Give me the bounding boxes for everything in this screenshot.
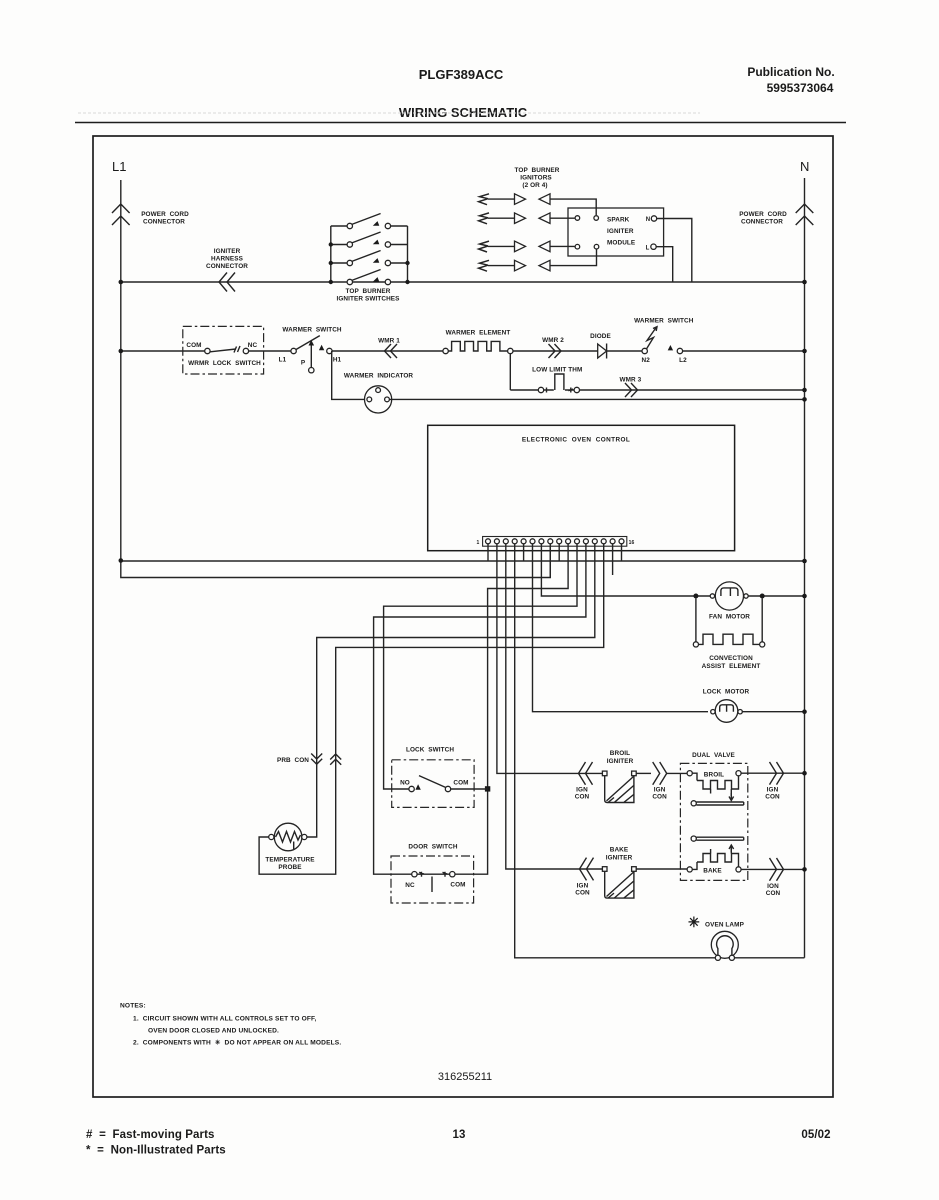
svg-text:TOP BURNER: TOP BURNER	[514, 167, 559, 174]
wire broil igniter to mid connector	[636, 772, 651, 774]
svg-text:WARMER ELEMENT: WARMER ELEMENT	[446, 330, 511, 337]
svg-text:IGNITER: IGNITER	[214, 248, 241, 255]
warmer switch terminal L1	[291, 348, 296, 353]
svg-text:COM: COM	[453, 780, 468, 787]
diode D1	[598, 344, 607, 358]
EOC connector strip	[483, 537, 627, 547]
wire pin16 drop	[621, 544, 623, 561]
connector IGN CON right (broil)	[770, 762, 784, 785]
diagram border frame	[93, 136, 833, 1097]
switch row 2	[331, 244, 347, 246]
svg-text:IGNITER SWITCHES: IGNITER SWITCHES	[336, 296, 400, 303]
svg-text:DIODE: DIODE	[590, 333, 611, 340]
module pins top-left	[575, 216, 580, 221]
svg-text:WARMER INDICATOR: WARMER INDICATOR	[344, 373, 414, 380]
svg-text:IGN: IGN	[654, 787, 666, 794]
wire pin13 to temperature probe right	[302, 544, 595, 837]
svg-text:L2: L2	[679, 357, 687, 364]
dual valve dashed box	[680, 763, 747, 880]
wire row2 main	[121, 350, 805, 352]
oven lamp	[711, 931, 738, 958]
svg-text:ASSIST ELEMENT: ASSIST ELEMENT	[702, 663, 761, 670]
svg-text:(2 OR 4): (2 OR 4)	[522, 182, 547, 189]
svg-text:16: 16	[629, 540, 635, 546]
broil igniter	[602, 771, 607, 776]
svg-text:PROBE: PROBE	[278, 864, 302, 871]
svg-text:OVEN LAMP: OVEN LAMP	[705, 922, 745, 929]
svg-text:WMR 2: WMR 2	[542, 337, 564, 344]
svg-text:DOOR SWITCH: DOOR SWITCH	[408, 844, 457, 851]
wire pin15 drop	[612, 544, 614, 575]
svg-text:1. CIRCUIT SHOWN WITH ALL CON: 1. CIRCUIT SHOWN WITH ALL CONTROLS SET T…	[133, 1016, 317, 1023]
connector WMR 1	[385, 344, 398, 358]
svg-text:CONNECTOR: CONNECTOR	[206, 263, 248, 270]
svg-text:L1: L1	[279, 357, 287, 364]
svg-text:CON: CON	[765, 794, 780, 801]
bake igniter	[602, 867, 607, 872]
lock switch contacts	[409, 786, 414, 791]
left bus	[330, 226, 332, 283]
top burner igniters group	[479, 194, 597, 271]
connector IGN CON left (bake)	[580, 858, 594, 881]
connector IGN CON mid (broil)	[653, 762, 667, 785]
igniter electrode row3	[479, 241, 489, 252]
svg-text:WMR 3: WMR 3	[619, 377, 641, 384]
connector PRB CON arrows down	[311, 754, 322, 765]
svg-text:N: N	[800, 159, 809, 174]
warmer switch terminal P	[310, 344, 312, 368]
wire pin9 drop	[558, 544, 560, 561]
wire pin4 to oven lamp row	[515, 544, 805, 958]
svg-text:CONNECTOR: CONNECTOR	[143, 219, 185, 226]
door switch stem	[431, 877, 433, 893]
wire mid connector to valve	[667, 772, 687, 774]
wire module L pin to row1 bus	[656, 247, 673, 282]
junction N row1	[802, 280, 807, 285]
svg-text:POWER CORD: POWER CORD	[141, 211, 189, 218]
svg-text:NOTES:: NOTES:	[120, 1003, 146, 1010]
svg-text:WARMER SWITCH: WARMER SWITCH	[634, 318, 694, 325]
wire pin12 to door switch NC	[374, 544, 586, 874]
svg-text:IGN: IGN	[767, 787, 779, 794]
top burner igniter switches block	[329, 214, 410, 285]
svg-text:# = Fast-moving Parts: # = Fast-moving Parts	[86, 1129, 215, 1141]
svg-text:Publication No.: Publication No.	[747, 65, 834, 79]
convection assist element	[696, 599, 762, 642]
svg-text:PRB CON: PRB CON	[277, 757, 309, 764]
junction N row2	[802, 349, 807, 354]
bake valve plunger	[691, 836, 696, 841]
svg-text:316255211: 316255211	[438, 1071, 492, 1083]
connector ION CON right (bake)	[770, 858, 784, 881]
warmer switch terminal H1	[319, 345, 324, 350]
warmer indicator lamp	[332, 351, 364, 399]
svg-text:TOP BURNER: TOP BURNER	[345, 288, 390, 295]
warmer switch blade	[296, 336, 320, 350]
svg-text:CON: CON	[575, 890, 590, 897]
faint scan artifact line	[78, 112, 700, 114]
igniter harness connector symbol	[219, 273, 235, 292]
svg-text:IGN: IGN	[577, 883, 589, 890]
wire pin2 to broil igniter row	[497, 544, 602, 774]
svg-text:05/02: 05/02	[801, 1129, 830, 1141]
wire pin11 to lock switch NO	[384, 544, 577, 789]
svg-text:NC: NC	[248, 342, 258, 349]
module pins bottom-left	[575, 244, 580, 249]
svg-text:5995373064: 5995373064	[767, 81, 834, 95]
door switch dashed box	[391, 856, 474, 903]
wrmr lock switch dashed box	[183, 326, 264, 374]
svg-text:13: 13	[453, 1129, 466, 1141]
svg-text:DUAL VALVE: DUAL VALVE	[692, 752, 735, 759]
svg-text:TEMPERATURE: TEMPERATURE	[265, 857, 315, 864]
svg-text:ELECTRONIC OVEN CONTROL: ELECTRONIC OVEN CONTROL	[522, 437, 630, 444]
power cord connector L1	[112, 204, 130, 225]
svg-text:N: N	[646, 217, 650, 223]
wire pin6 to lock motor row	[533, 544, 709, 712]
connector WMR 2	[549, 344, 562, 358]
svg-text:COM: COM	[186, 342, 201, 349]
power cord connector N	[796, 204, 814, 225]
bake valve	[687, 867, 692, 872]
svg-text:BROIL: BROIL	[704, 772, 724, 779]
svg-text:WRMR LOCK SWITCH: WRMR LOCK SWITCH	[188, 360, 261, 367]
svg-text:HARNESS: HARNESS	[211, 256, 244, 263]
svg-text:IGNITORS: IGNITORS	[520, 175, 552, 182]
warmer element	[443, 348, 448, 353]
wire pin3 to bake igniter row	[506, 544, 602, 869]
wire row1 main L1 to N	[121, 281, 805, 283]
svg-text:CON: CON	[766, 890, 781, 897]
lock switch dashed box	[392, 760, 474, 808]
junction lock switch COM tee	[485, 786, 490, 791]
svg-text:IGNITER: IGNITER	[607, 758, 634, 765]
low limit thermostat	[538, 387, 543, 392]
svg-text:WIRING SCHEMATIC: WIRING SCHEMATIC	[399, 105, 528, 120]
svg-text:N2: N2	[642, 357, 651, 364]
door switch contacts	[412, 872, 417, 877]
wire broil valve to right connector	[741, 772, 805, 774]
svg-text:POWER CORD: POWER CORD	[739, 211, 787, 218]
svg-text:IGNITER: IGNITER	[607, 228, 634, 235]
temperature probe	[274, 823, 302, 851]
connector WMR 3	[625, 383, 638, 397]
EOC box	[428, 425, 735, 550]
svg-text:L1: L1	[112, 159, 126, 174]
broil valve	[687, 771, 692, 776]
svg-text:LOCK MOTOR: LOCK MOTOR	[703, 689, 750, 696]
svg-text:✳: ✳	[688, 914, 700, 930]
wire bake valve to right connector	[741, 868, 805, 870]
horizontal rule under subtitle	[75, 122, 846, 124]
junction L1 row1	[119, 280, 124, 285]
svg-text:MODULE: MODULE	[607, 240, 636, 247]
wire L1-N bus under EOC	[121, 560, 805, 562]
warmer switch 2 terminal N2	[642, 348, 647, 353]
warmer switch 2 terminal L2	[668, 345, 673, 350]
wrmr lock switch contacts	[205, 348, 210, 353]
wire pin5 drop	[523, 544, 525, 561]
wire row2b low limit	[510, 389, 805, 391]
wire bake igniter to valve	[636, 868, 687, 870]
spark igniter module U1	[568, 208, 664, 256]
svg-text:NO: NO	[400, 780, 410, 787]
junction L1 bus	[119, 558, 124, 563]
svg-text:L: L	[646, 246, 650, 252]
svg-text:COM: COM	[450, 882, 465, 889]
connector PRB CON arrows up	[330, 754, 341, 765]
junction L1 row2	[119, 349, 124, 354]
svg-text:IGNITER: IGNITER	[606, 855, 633, 862]
fan motor	[693, 594, 698, 599]
svg-text:WARMER SWITCH: WARMER SWITCH	[282, 327, 342, 334]
igniter electrode row2	[479, 213, 489, 224]
svg-text:CON: CON	[575, 794, 590, 801]
svg-text:CON: CON	[652, 794, 667, 801]
svg-text:* = Non-Illustrated Parts: * = Non-Illustrated Parts	[86, 1145, 226, 1157]
switch row 3	[331, 262, 347, 264]
connector IGN CON left (broil)	[579, 762, 593, 785]
junction N row2b	[802, 388, 807, 393]
switch row 4 on main wire	[347, 279, 352, 284]
svg-text:BAKE: BAKE	[703, 868, 722, 875]
wire pin1 drop	[487, 544, 489, 561]
svg-text:FAN MOTOR: FAN MOTOR	[709, 614, 750, 621]
L1 rail wire	[120, 180, 122, 561]
svg-text:1: 1	[477, 540, 480, 546]
svg-text:P: P	[301, 360, 306, 367]
broil valve plunger	[691, 801, 696, 806]
right bus	[407, 226, 409, 283]
svg-text:CONVECTION: CONVECTION	[709, 655, 753, 662]
igniter electrode row4	[479, 260, 489, 271]
svg-text:ION: ION	[767, 883, 779, 890]
wire pin14 to temperature probe left loop	[259, 544, 604, 874]
wire pin7 to fan motor row	[541, 544, 710, 596]
svg-text:NC: NC	[405, 882, 415, 889]
svg-text:CONNECTOR: CONNECTOR	[741, 219, 783, 226]
warmer switch 2 blade	[646, 327, 657, 350]
svg-text:IGN: IGN	[576, 787, 588, 794]
svg-text:WMR 1: WMR 1	[378, 338, 400, 345]
wire pin8 drop to L1 line	[549, 544, 551, 578]
switch row 1	[331, 225, 347, 227]
igniter electrode row1	[479, 194, 489, 205]
svg-text:LOW LIMIT THM: LOW LIMIT THM	[532, 367, 582, 374]
connector pins 1-16	[486, 539, 625, 544]
L1 rail turn to EOC pin8 wire	[121, 546, 551, 578]
svg-text:BAKE: BAKE	[610, 847, 629, 854]
svg-text:BROIL: BROIL	[610, 750, 630, 757]
svg-text:H1: H1	[333, 357, 342, 364]
svg-text:OVEN DOOR CLOSED AND UNLOCKED.: OVEN DOOR CLOSED AND UNLOCKED.	[148, 1028, 279, 1035]
svg-text:2. COMPONENTS WITH ✳ DO NOT: 2. COMPONENTS WITH ✳ DO NOT APPEAR ON AL…	[133, 1039, 341, 1047]
junction N bus	[802, 559, 807, 564]
notes block	[120, 1003, 341, 1047]
svg-text:LOCK SWITCH: LOCK SWITCH	[406, 747, 454, 754]
wire warmer element junction drop	[509, 354, 511, 390]
wire lock COM to pin10 drop	[451, 788, 488, 790]
svg-text:SPARK: SPARK	[607, 217, 630, 224]
svg-text:PLGF389ACC: PLGF389ACC	[419, 67, 504, 82]
wire pin10 to door switch COM via left drop	[455, 544, 568, 874]
wire module N pin to N rail	[657, 219, 692, 283]
N rail wire	[804, 178, 806, 958]
